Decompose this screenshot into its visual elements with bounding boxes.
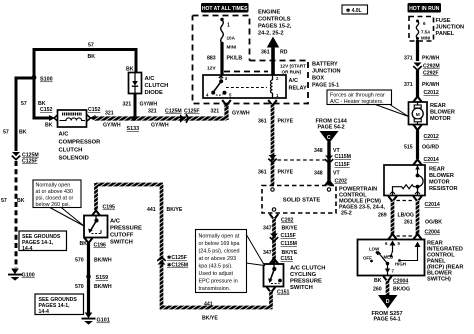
battery junction box dashed outline xyxy=(193,16,309,104)
svg-text:Normally open: Normally open xyxy=(36,183,71,189)
svg-text:Normally open at: Normally open at xyxy=(199,234,240,240)
text FROM S257 PAGE 54-1 xyxy=(372,311,403,323)
svg-text:A/C: A/C xyxy=(110,219,121,225)
svg-text:269: 269 xyxy=(378,213,387,219)
svg-text:57: 57 xyxy=(88,43,94,49)
svg-text:C196: C196 xyxy=(94,243,107,249)
svg-text:OG/BK: OG/BK xyxy=(425,220,442,226)
svg-text:RELAY: RELAY xyxy=(289,86,307,92)
wire 348 VT to PCM xyxy=(327,142,330,186)
connector C202 (PCM bottom exit) xyxy=(270,214,294,224)
svg-text:SWITCH: SWITCH xyxy=(290,285,313,291)
text BATTERY JUNCTION BOX xyxy=(312,62,341,89)
connector C196 (cutoff switch exit) xyxy=(84,238,106,249)
svg-text:GY/WH: GY/WH xyxy=(151,123,169,129)
svg-text:361: 361 xyxy=(261,50,270,56)
connector C2004 dashed tie xyxy=(397,235,414,237)
svg-text:BLOWER: BLOWER xyxy=(429,173,454,179)
svg-text:LOW: LOW xyxy=(369,247,380,252)
svg-text:321: 321 xyxy=(211,109,220,115)
wire 261 OG/BK resistor to RICP xyxy=(416,200,420,235)
svg-text:S133: S133 xyxy=(127,126,140,132)
connector C115F / C115M pair xyxy=(270,233,297,247)
svg-text:SWITCH): SWITCH) xyxy=(427,277,451,283)
note box SEE GROUNDS (upper) xyxy=(19,231,67,252)
svg-text:C152: C152 xyxy=(40,107,53,113)
svg-text:57: 57 xyxy=(1,198,7,204)
svg-text:BK: BK xyxy=(80,241,88,247)
svg-text:BLOWER: BLOWER xyxy=(430,110,455,116)
svg-text:14-4: 14-4 xyxy=(39,309,49,315)
svg-text:BATTERY: BATTERY xyxy=(312,62,338,68)
svg-text:✱C125F: ✱C125F xyxy=(167,255,187,261)
svg-text:Forces air through rear: Forces air through rear xyxy=(330,93,385,99)
svg-text:C115F: C115F xyxy=(335,162,350,168)
box 4.0L note xyxy=(342,5,368,14)
svg-text:C292F: C292F xyxy=(423,71,439,77)
ground G100 xyxy=(8,269,35,281)
resistor rear blower motor resistor xyxy=(384,165,458,196)
PCM dashed box SOLID STATE xyxy=(262,186,336,214)
connector C151 (cycling switch exit) xyxy=(267,287,290,296)
svg-text:CONTROLS: CONTROLS xyxy=(258,17,291,23)
svg-text:441: 441 xyxy=(147,207,156,213)
relay pin 2 xyxy=(273,75,280,81)
svg-text:441: 441 xyxy=(204,302,213,308)
relay coil xyxy=(270,80,272,93)
svg-text:OR RUN): OR RUN) xyxy=(282,70,302,75)
svg-text:C2012: C2012 xyxy=(424,90,439,96)
wire 260 BK/OG to triangle D xyxy=(386,280,390,296)
connector C2014 (resistor exits) xyxy=(388,196,440,208)
svg-text:12V: 12V xyxy=(207,66,216,72)
ground G101 xyxy=(82,313,110,325)
svg-text:C151: C151 xyxy=(281,256,294,262)
connector C125M / C125F (left) xyxy=(12,152,39,165)
svg-text:PRESSURE: PRESSURE xyxy=(290,279,322,285)
svg-text:321: 321 xyxy=(123,102,132,108)
connector C2012 (into motor) xyxy=(413,90,439,102)
PCM pin (bottom) xyxy=(272,208,275,211)
triangle connector D xyxy=(378,295,398,309)
svg-text:(24.5 psi), closed: (24.5 psi), closed xyxy=(199,249,240,255)
svg-text:7.5A: 7.5A xyxy=(421,30,431,35)
svg-text:VT: VT xyxy=(333,171,340,177)
svg-text:A/C: A/C xyxy=(289,78,299,84)
svg-text:OFF: OFF xyxy=(363,256,372,261)
svg-text:C202: C202 xyxy=(335,179,348,185)
diode A/C clutch diode xyxy=(129,73,169,97)
relay pin 4 xyxy=(206,93,209,98)
svg-text:C125F: C125F xyxy=(184,109,200,115)
svg-text:A/C CLUTCH: A/C CLUTCH xyxy=(290,266,325,272)
svg-text:GY/WH: GY/WH xyxy=(232,111,250,117)
svg-text:321: 321 xyxy=(105,111,114,117)
callout note (forces air) xyxy=(327,90,409,117)
svg-text:BK/YE: BK/YE xyxy=(282,226,298,232)
wire 269 LB/OG resistor to RICP xyxy=(391,200,395,235)
connector C125M C125F (horizontal pair) xyxy=(165,109,200,123)
connector C292M / C292F pair xyxy=(413,63,439,77)
svg-text:348: 348 xyxy=(314,148,323,154)
svg-text:BK/YE: BK/YE xyxy=(202,316,218,322)
PCM pin (left top) xyxy=(271,188,274,191)
svg-text:G100: G100 xyxy=(22,273,35,279)
relay pin 3 xyxy=(219,75,228,83)
connector C152 (right of solenoid) xyxy=(87,107,101,122)
fuse 6 7.5A MINI xyxy=(416,20,431,41)
connector C115M / C115F pair xyxy=(325,154,351,168)
svg-text:at or above 293: at or above 293 xyxy=(199,256,236,262)
svg-text:at or above 430: at or above 430 xyxy=(36,189,73,195)
svg-text:C151: C151 xyxy=(277,290,290,296)
svg-text:A/C: A/C xyxy=(145,76,156,82)
svg-text:1: 1 xyxy=(227,23,230,29)
callout note (430 psi) xyxy=(33,180,84,226)
svg-text:C195: C195 xyxy=(103,205,116,211)
svg-text:RD: RD xyxy=(280,50,288,56)
PCM pin (right top) xyxy=(327,188,330,191)
svg-text:MINI: MINI xyxy=(421,36,430,41)
svg-text:CLUTCH: CLUTCH xyxy=(145,83,169,89)
svg-text:C125F: C125F xyxy=(22,159,38,165)
fuse 1 10A MINI xyxy=(220,18,236,50)
svg-text:S159: S159 xyxy=(96,275,109,281)
svg-text:347: 347 xyxy=(263,226,272,232)
svg-text:MOTOR: MOTOR xyxy=(429,180,450,186)
wire 361 PK/YE relay to PCM xyxy=(271,104,275,186)
svg-text:COMPRESSOR: COMPRESSOR xyxy=(59,140,102,146)
svg-text:PAGE 15-1: PAGE 15-1 xyxy=(312,83,339,89)
svg-text:PAGE 54-2: PAGE 54-2 xyxy=(318,125,345,131)
wire 57 BK left branch from S100 xyxy=(16,78,34,151)
svg-text:6: 6 xyxy=(423,21,426,26)
wire 441 BK/YE bottom run xyxy=(96,183,273,310)
svg-text:361: 361 xyxy=(258,119,267,125)
svg-text:A/C: A/C xyxy=(59,132,70,138)
svg-text:361: 361 xyxy=(258,170,267,176)
banner HOT AT ALL TIMES xyxy=(201,3,249,13)
svg-text:10A: 10A xyxy=(227,36,236,41)
relay pin 1 xyxy=(273,93,280,98)
svg-text:HIGH: HIGH xyxy=(395,262,406,267)
svg-text:C292M: C292M xyxy=(423,64,440,70)
wire 515 OG/RD motor to resistor xyxy=(416,129,419,160)
svg-text:348: 348 xyxy=(314,171,323,177)
svg-text:PK/WH: PK/WH xyxy=(422,82,440,88)
svg-text:570: 570 xyxy=(75,284,84,290)
svg-text:REAR: REAR xyxy=(430,103,446,109)
svg-text:C2004: C2004 xyxy=(393,279,408,285)
svg-text:BK/WH: BK/WH xyxy=(94,284,112,290)
fuse junction panel dashed box xyxy=(409,17,434,42)
node S133 xyxy=(127,116,140,132)
svg-text:PK/WH: PK/WH xyxy=(422,56,440,62)
svg-text:CYCLING: CYCLING xyxy=(290,272,317,278)
label 12V (START OR RUN) xyxy=(280,64,306,75)
svg-text:BK: BK xyxy=(88,54,96,60)
connector C2014 dashed tie xyxy=(397,200,414,202)
svg-text:515: 515 xyxy=(404,145,413,151)
relay armature dashed link xyxy=(226,87,267,89)
switch A/C clutch cycling pressure switch xyxy=(264,264,326,291)
svg-text:✱C125M: ✱C125M xyxy=(167,263,188,269)
svg-text:PANEL: PANEL xyxy=(436,31,455,37)
svg-text:C2012: C2012 xyxy=(424,134,439,140)
svg-text:C2014: C2014 xyxy=(424,157,439,163)
text ENGINE CONTROLS xyxy=(258,10,292,37)
motor rear blower motor xyxy=(409,102,455,125)
svg-text:or below 169 kpa: or below 169 kpa xyxy=(199,241,240,247)
svg-text:EPC pressure in: EPC pressure in xyxy=(199,279,238,285)
node S159 xyxy=(86,274,108,281)
svg-text:347: 347 xyxy=(263,250,272,256)
svg-text:57: 57 xyxy=(3,130,9,136)
svg-text:CLUTCH: CLUTCH xyxy=(59,148,83,154)
connector C2014 (into resistor) xyxy=(413,157,439,165)
connector C151 (into cycling switch) xyxy=(270,256,293,264)
svg-text:24-2, 25-2: 24-2, 25-2 xyxy=(258,31,284,37)
svg-text:HOT AT ALL TIMES: HOT AT ALL TIMES xyxy=(202,6,248,12)
svg-text:260: 260 xyxy=(373,287,382,293)
connector C115 dashed tie xyxy=(278,159,325,161)
svg-text:MINI: MINI xyxy=(227,45,237,50)
svg-text:C: C xyxy=(327,135,331,141)
svg-text:FUSE: FUSE xyxy=(436,18,451,24)
svg-text:PAGE 54-1: PAGE 54-1 xyxy=(374,317,401,323)
svg-text:12V (START: 12V (START xyxy=(280,64,306,69)
svg-text:883: 883 xyxy=(207,56,216,62)
connector (relay pin 1 exit) xyxy=(268,100,277,106)
svg-text:BK: BK xyxy=(19,130,27,136)
svg-text:GY/WH: GY/WH xyxy=(140,102,158,108)
svg-text:C115M: C115M xyxy=(281,241,297,247)
svg-text:57: 57 xyxy=(21,101,27,107)
solenoid A/C compressor clutch solenoid xyxy=(58,110,102,162)
svg-text:C202: C202 xyxy=(281,218,294,224)
connector *C125F / *C125M pair xyxy=(157,255,188,269)
svg-text:D: D xyxy=(386,299,390,305)
svg-text:321: 321 xyxy=(148,109,157,115)
wire 321 below diode xyxy=(134,94,137,119)
svg-text:PK/LB: PK/LB xyxy=(227,56,243,62)
svg-text:A/C - Heater registers.: A/C - Heater registers. xyxy=(330,99,384,105)
arrow to engine controls xyxy=(267,37,279,76)
RICP switch rotary xyxy=(363,242,421,276)
connector pair on 361 wire xyxy=(268,155,276,163)
wire 321 GY/WH main horizontal run xyxy=(94,103,227,120)
connector C152 (left of solenoid) xyxy=(40,107,58,122)
svg-text:MOTOR: MOTOR xyxy=(430,116,451,122)
svg-text:transmission.: transmission. xyxy=(199,286,231,292)
text FROM C144 PAGE 54-2 xyxy=(316,119,348,131)
svg-text:G101: G101 xyxy=(97,318,110,324)
svg-text:JUNCTION: JUNCTION xyxy=(436,25,465,31)
svg-text:REAR: REAR xyxy=(429,167,445,173)
svg-text:261: 261 xyxy=(404,220,413,226)
svg-text:BK: BK xyxy=(17,198,25,204)
connector C2012 (motor exit) xyxy=(413,125,439,141)
svg-text:Used to adjust: Used to adjust xyxy=(199,271,234,277)
svg-text:C115M: C115M xyxy=(335,154,351,160)
wire dashed BK to G100 xyxy=(15,161,18,268)
svg-text:C2004: C2004 xyxy=(425,230,440,236)
text FUSE JUNCTION PANEL xyxy=(436,18,465,37)
svg-text:psi, closed at or: psi, closed at or xyxy=(36,196,74,202)
switch A/C pressure cutoff switch xyxy=(84,216,142,246)
connector C2004 (into RICP) xyxy=(388,230,440,240)
svg-text:BK/WH: BK/WH xyxy=(94,258,112,264)
wire 883 PK/LB fuse to relay pin 3 xyxy=(220,44,223,75)
svg-text:below 260 psi.: below 260 psi. xyxy=(36,202,70,208)
svg-text:BK: BK xyxy=(45,123,53,129)
text POWERTRAIN CONTROL MODULE (PCM) xyxy=(339,187,386,217)
svg-text:RESISTOR: RESISTOR xyxy=(429,186,458,192)
svg-text:PK/YE: PK/YE xyxy=(278,119,294,125)
svg-text:M: M xyxy=(416,112,420,118)
triangle connector C xyxy=(320,131,339,144)
svg-text:BK: BK xyxy=(374,278,382,284)
note box SEE GROUNDS (lower) xyxy=(35,294,84,315)
svg-text:BK: BK xyxy=(126,67,134,73)
wire 570 BK/WH to G101 xyxy=(87,242,90,315)
svg-text:BK/OG: BK/OG xyxy=(393,287,410,293)
relay pin 5 xyxy=(216,91,232,98)
wire to C152 left xyxy=(33,117,51,120)
svg-text:BK/YE: BK/YE xyxy=(167,207,183,213)
relay switch blade xyxy=(211,81,221,94)
svg-text:371: 371 xyxy=(404,56,413,62)
svg-text:C2014: C2014 xyxy=(425,202,440,208)
connector (relay pin 5 exit) xyxy=(222,100,231,106)
svg-text:C125M: C125M xyxy=(165,109,182,115)
svg-text:SWITCH: SWITCH xyxy=(110,240,133,246)
svg-text:PK/YE: PK/YE xyxy=(278,170,294,176)
RICP rear integrated control panel box xyxy=(358,240,464,283)
svg-text:C152: C152 xyxy=(88,107,101,113)
svg-text:kpa (43.5 psi).: kpa (43.5 psi). xyxy=(199,264,233,270)
svg-text:GY/WH: GY/WH xyxy=(103,123,121,129)
svg-text:14-4: 14-4 xyxy=(22,246,32,252)
svg-text:ENGINE: ENGINE xyxy=(258,10,280,16)
connector C202 (into PCM) xyxy=(325,179,347,187)
svg-text:✱ 4.0L: ✱ 4.0L xyxy=(346,8,362,14)
connector C195 (into cutoff switch) xyxy=(92,205,115,217)
svg-text:LB/OG: LB/OG xyxy=(398,213,414,219)
svg-text:DIODE: DIODE xyxy=(145,90,163,96)
svg-text:PRESSURE: PRESSURE xyxy=(110,226,142,232)
svg-text:570: 570 xyxy=(75,258,84,264)
svg-text:HOT IN RUN: HOT IN RUN xyxy=(409,6,440,12)
RICP pin 6/5 xyxy=(385,241,401,253)
svg-text:371: 371 xyxy=(404,82,413,88)
connector C2004 (RICP exit) xyxy=(383,276,408,285)
svg-text:JUNCTION: JUNCTION xyxy=(312,69,341,75)
svg-text:SOLID STATE: SOLID STATE xyxy=(283,198,321,204)
svg-text:BOX: BOX xyxy=(312,76,324,82)
callout note (kpa pressures) xyxy=(196,230,265,293)
svg-text:C115F: C115F xyxy=(281,233,296,239)
svg-text:SOLENOID: SOLENOID xyxy=(59,156,89,162)
svg-text:OG/RD: OG/RD xyxy=(422,145,439,151)
wire 347 BK/YE PCM to cycling switch xyxy=(272,218,276,264)
svg-text:25-2: 25-2 xyxy=(341,211,352,217)
svg-text:CUTOFF: CUTOFF xyxy=(110,233,134,239)
relay A/C relay box xyxy=(203,75,307,98)
svg-text:PAGES 15-2,: PAGES 15-2, xyxy=(258,24,292,30)
node S100 xyxy=(32,75,53,82)
wire 57 BK top loop xyxy=(34,50,136,119)
svg-text:S100: S100 xyxy=(40,77,53,83)
banner HOT IN RUN xyxy=(408,3,442,13)
wire 371 PK/WH to motor xyxy=(416,40,419,97)
